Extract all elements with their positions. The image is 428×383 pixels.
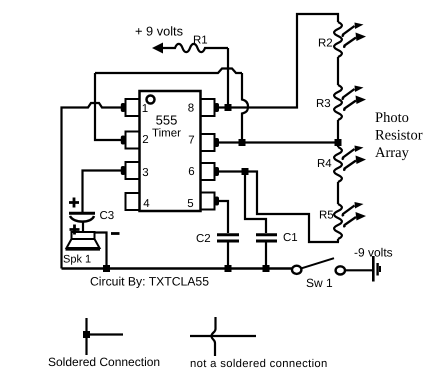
node pin8/R1/array junction [225, 104, 232, 111]
op-amp U1 555 timer body [140, 91, 201, 211]
resistor R4 [317, 147, 342, 182]
node C1 rail junction [263, 265, 270, 272]
pin 6 box [188, 163, 219, 180]
wire R4-R5 [337, 182, 339, 204]
svg-text:R2: R2 [318, 38, 333, 50]
capacitor C1 [256, 232, 298, 269]
pin 2 box [121, 132, 149, 149]
ground -9 volts [354, 246, 393, 282]
switch Sw1 [292, 258, 345, 290]
svg-text:Array: Array [375, 145, 410, 161]
svg-text:-9 volts: -9 volts [354, 246, 393, 260]
wire B: down from top loop, hop over pin 8 wire, to pin 7 junction [242, 73, 248, 143]
legend soldered connection [48, 318, 160, 369]
wire pin 6 to R5 bottom [219, 172, 339, 243]
wire pin 6 junction branch to C1 [245, 173, 266, 233]
wire speaker minus to rail [95, 233, 107, 269]
pin 5 box [187, 193, 219, 211]
svg-text:Circuit By: TXTCLA55: Circuit By: TXTCLA55 [90, 275, 209, 289]
wire pin 5 to C2 [218, 201, 228, 233]
svg-text:6: 6 [188, 166, 194, 178]
svg-text:555: 555 [156, 113, 178, 128]
svg-text:+ 9 volts: + 9 volts [135, 23, 183, 38]
svg-text:1: 1 [142, 103, 148, 115]
svg-text:Photo: Photo [375, 110, 409, 126]
wire pin 1 with hop over vertical, down left side [62, 103, 122, 269]
photo arrows R5 [343, 202, 366, 226]
pin 3 box [121, 162, 149, 179]
wire R2-R3 [337, 57, 339, 85]
node R3/R4 pin7 junction [335, 139, 342, 146]
capacitor C3 polarized [69, 198, 114, 233]
pin 7 box [188, 134, 219, 151]
pin 4 box [126, 193, 151, 210]
ground rail wire [62, 267, 292, 270]
photo arrows R2 [343, 23, 366, 47]
svg-text:R4: R4 [317, 158, 332, 170]
svg-text:R5: R5 [319, 210, 334, 222]
node speaker rail junction [103, 265, 110, 272]
resistor R3 [316, 85, 342, 120]
wire R3 to junction [337, 120, 339, 147]
node pin7 junction [239, 139, 246, 146]
photo resistor array chain: resistor R2 [318, 22, 342, 57]
svg-text:Spk 1: Spk 1 [63, 254, 91, 266]
svg-text:Sw 1: Sw 1 [306, 276, 333, 290]
svg-text:2: 2 [142, 134, 148, 146]
capacitor C2 [196, 233, 239, 269]
svg-text:Timer: Timer [152, 128, 181, 140]
wire A: R1 down to pin 8 row [227, 48, 229, 108]
wire top loop pin2/pin7 with hop over wire A [95, 69, 242, 74]
wire pin 3 to C3 [83, 171, 122, 213]
wire switch to ground [345, 269, 372, 271]
svg-text:3: 3 [142, 167, 148, 179]
legend not a soldered connection [190, 317, 328, 370]
resistor R1 [163, 35, 228, 53]
svg-text:C3: C3 [100, 210, 115, 222]
svg-text:not a soldered connection: not a soldered connection [190, 358, 328, 370]
svg-text:C1: C1 [283, 232, 298, 244]
wire pin 7 to R3/R4 junction [219, 141, 338, 143]
wire R5 bottom corner [337, 239, 339, 242]
speaker Spk1 [63, 225, 120, 266]
svg-text:R1: R1 [193, 35, 208, 47]
svg-text:Soldered Connection: Soldered Connection [48, 355, 160, 369]
svg-text:5: 5 [187, 198, 193, 210]
wire pin 8 to photo array top [219, 14, 338, 108]
resistor R5 [319, 204, 342, 239]
pin 1 box [121, 99, 148, 116]
svg-text:C2: C2 [196, 233, 211, 245]
pin 8 box [188, 99, 219, 116]
power +9 volts arrow [135, 23, 183, 53]
svg-text:8: 8 [188, 103, 194, 115]
wire from top loop down to pin 2 [95, 73, 121, 140]
node C2 rail junction [225, 265, 232, 272]
node pin6 junction [242, 168, 249, 175]
svg-text:4: 4 [143, 198, 150, 210]
photo arrows R4 [343, 146, 366, 170]
svg-text:R3: R3 [316, 98, 331, 110]
svg-text:Resistor: Resistor [375, 128, 423, 144]
text photo resistor array [375, 110, 423, 161]
photo arrows R3 [343, 86, 366, 110]
svg-text:7: 7 [188, 135, 194, 147]
